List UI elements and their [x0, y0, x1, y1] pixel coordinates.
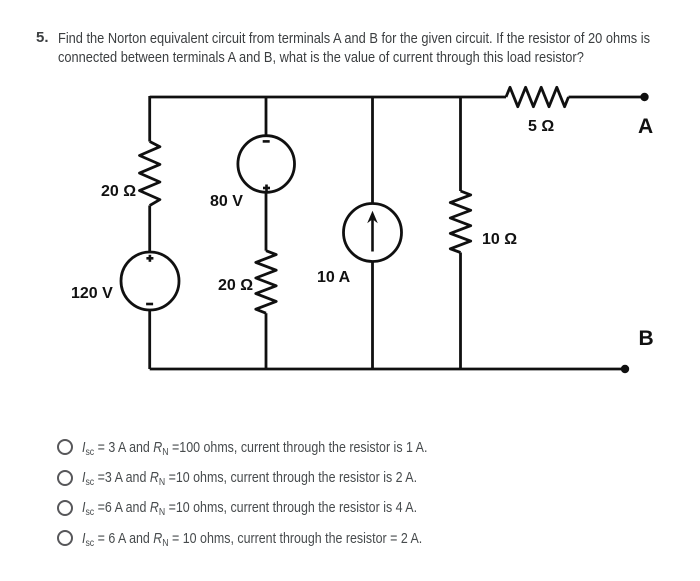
label 80 V: [210, 193, 243, 210]
svg-text:80 V: 80 V: [210, 193, 243, 210]
plus sign of 80V source: [263, 185, 270, 192]
question text: [58, 29, 650, 67]
resistor 20Ω branch2: [256, 251, 276, 314]
label 10 A: [317, 269, 351, 286]
wire bottom rail: [150, 368, 625, 371]
wire left branch lower: [148, 310, 151, 369]
arrow of current source: [367, 211, 378, 252]
wire branch3 upper: [371, 96, 374, 204]
wire branch2 middle: [265, 192, 268, 250]
label 120 V: [71, 285, 113, 302]
question number: [36, 29, 49, 46]
option 3 radio: [57, 500, 73, 516]
plus sign of 120V source: [146, 255, 153, 262]
terminal A node: [640, 93, 648, 101]
svg-text:B: B: [639, 327, 654, 350]
svg-text:120 V: 120 V: [71, 285, 113, 302]
minus sign of 120V source: [146, 303, 153, 306]
wire branch3 lower: [371, 262, 374, 370]
svg-text:20 Ω: 20 Ω: [101, 183, 136, 200]
terminal B node: [621, 365, 629, 373]
option 1 radio: [57, 439, 73, 455]
wire left branch middle: [148, 206, 151, 253]
svg-text:10 Ω: 10 Ω: [482, 231, 517, 248]
wire branch2 lower: [265, 313, 268, 369]
wire branch4 upper: [459, 96, 462, 191]
option 3 text: [82, 499, 417, 521]
resistor 10Ω branch4: [450, 191, 470, 253]
minus sign of 80V source: [263, 140, 270, 143]
option 4 text: [82, 530, 422, 552]
voltage source 80V: [238, 136, 295, 193]
svg-text:10 A: 10 A: [317, 269, 351, 286]
resistor 20Ω left branch: [140, 142, 160, 206]
label 10Ω: [482, 231, 517, 248]
label B: [639, 327, 654, 350]
option 2 text: [82, 469, 417, 491]
label A: [638, 115, 653, 138]
svg-text:5 Ω: 5 Ω: [528, 118, 554, 135]
svg-text:A: A: [638, 115, 653, 138]
wire left branch upper: [148, 96, 151, 142]
label 5Ω: [528, 118, 554, 135]
voltage source 120V: [121, 252, 179, 310]
option 2 radio: [57, 470, 73, 486]
option 1 text: [82, 439, 427, 461]
wire branch2 upper: [265, 96, 268, 136]
resistor 5Ω top: [506, 87, 569, 106]
label 20Ω branch2: [218, 277, 253, 294]
label 20Ω left: [101, 183, 136, 200]
svg-text:20 Ω: 20 Ω: [218, 277, 253, 294]
wire branch4 lower: [459, 253, 462, 370]
wire top rail: [150, 96, 645, 99]
option 4 radio: [57, 530, 73, 546]
current source 10A: [344, 204, 402, 262]
